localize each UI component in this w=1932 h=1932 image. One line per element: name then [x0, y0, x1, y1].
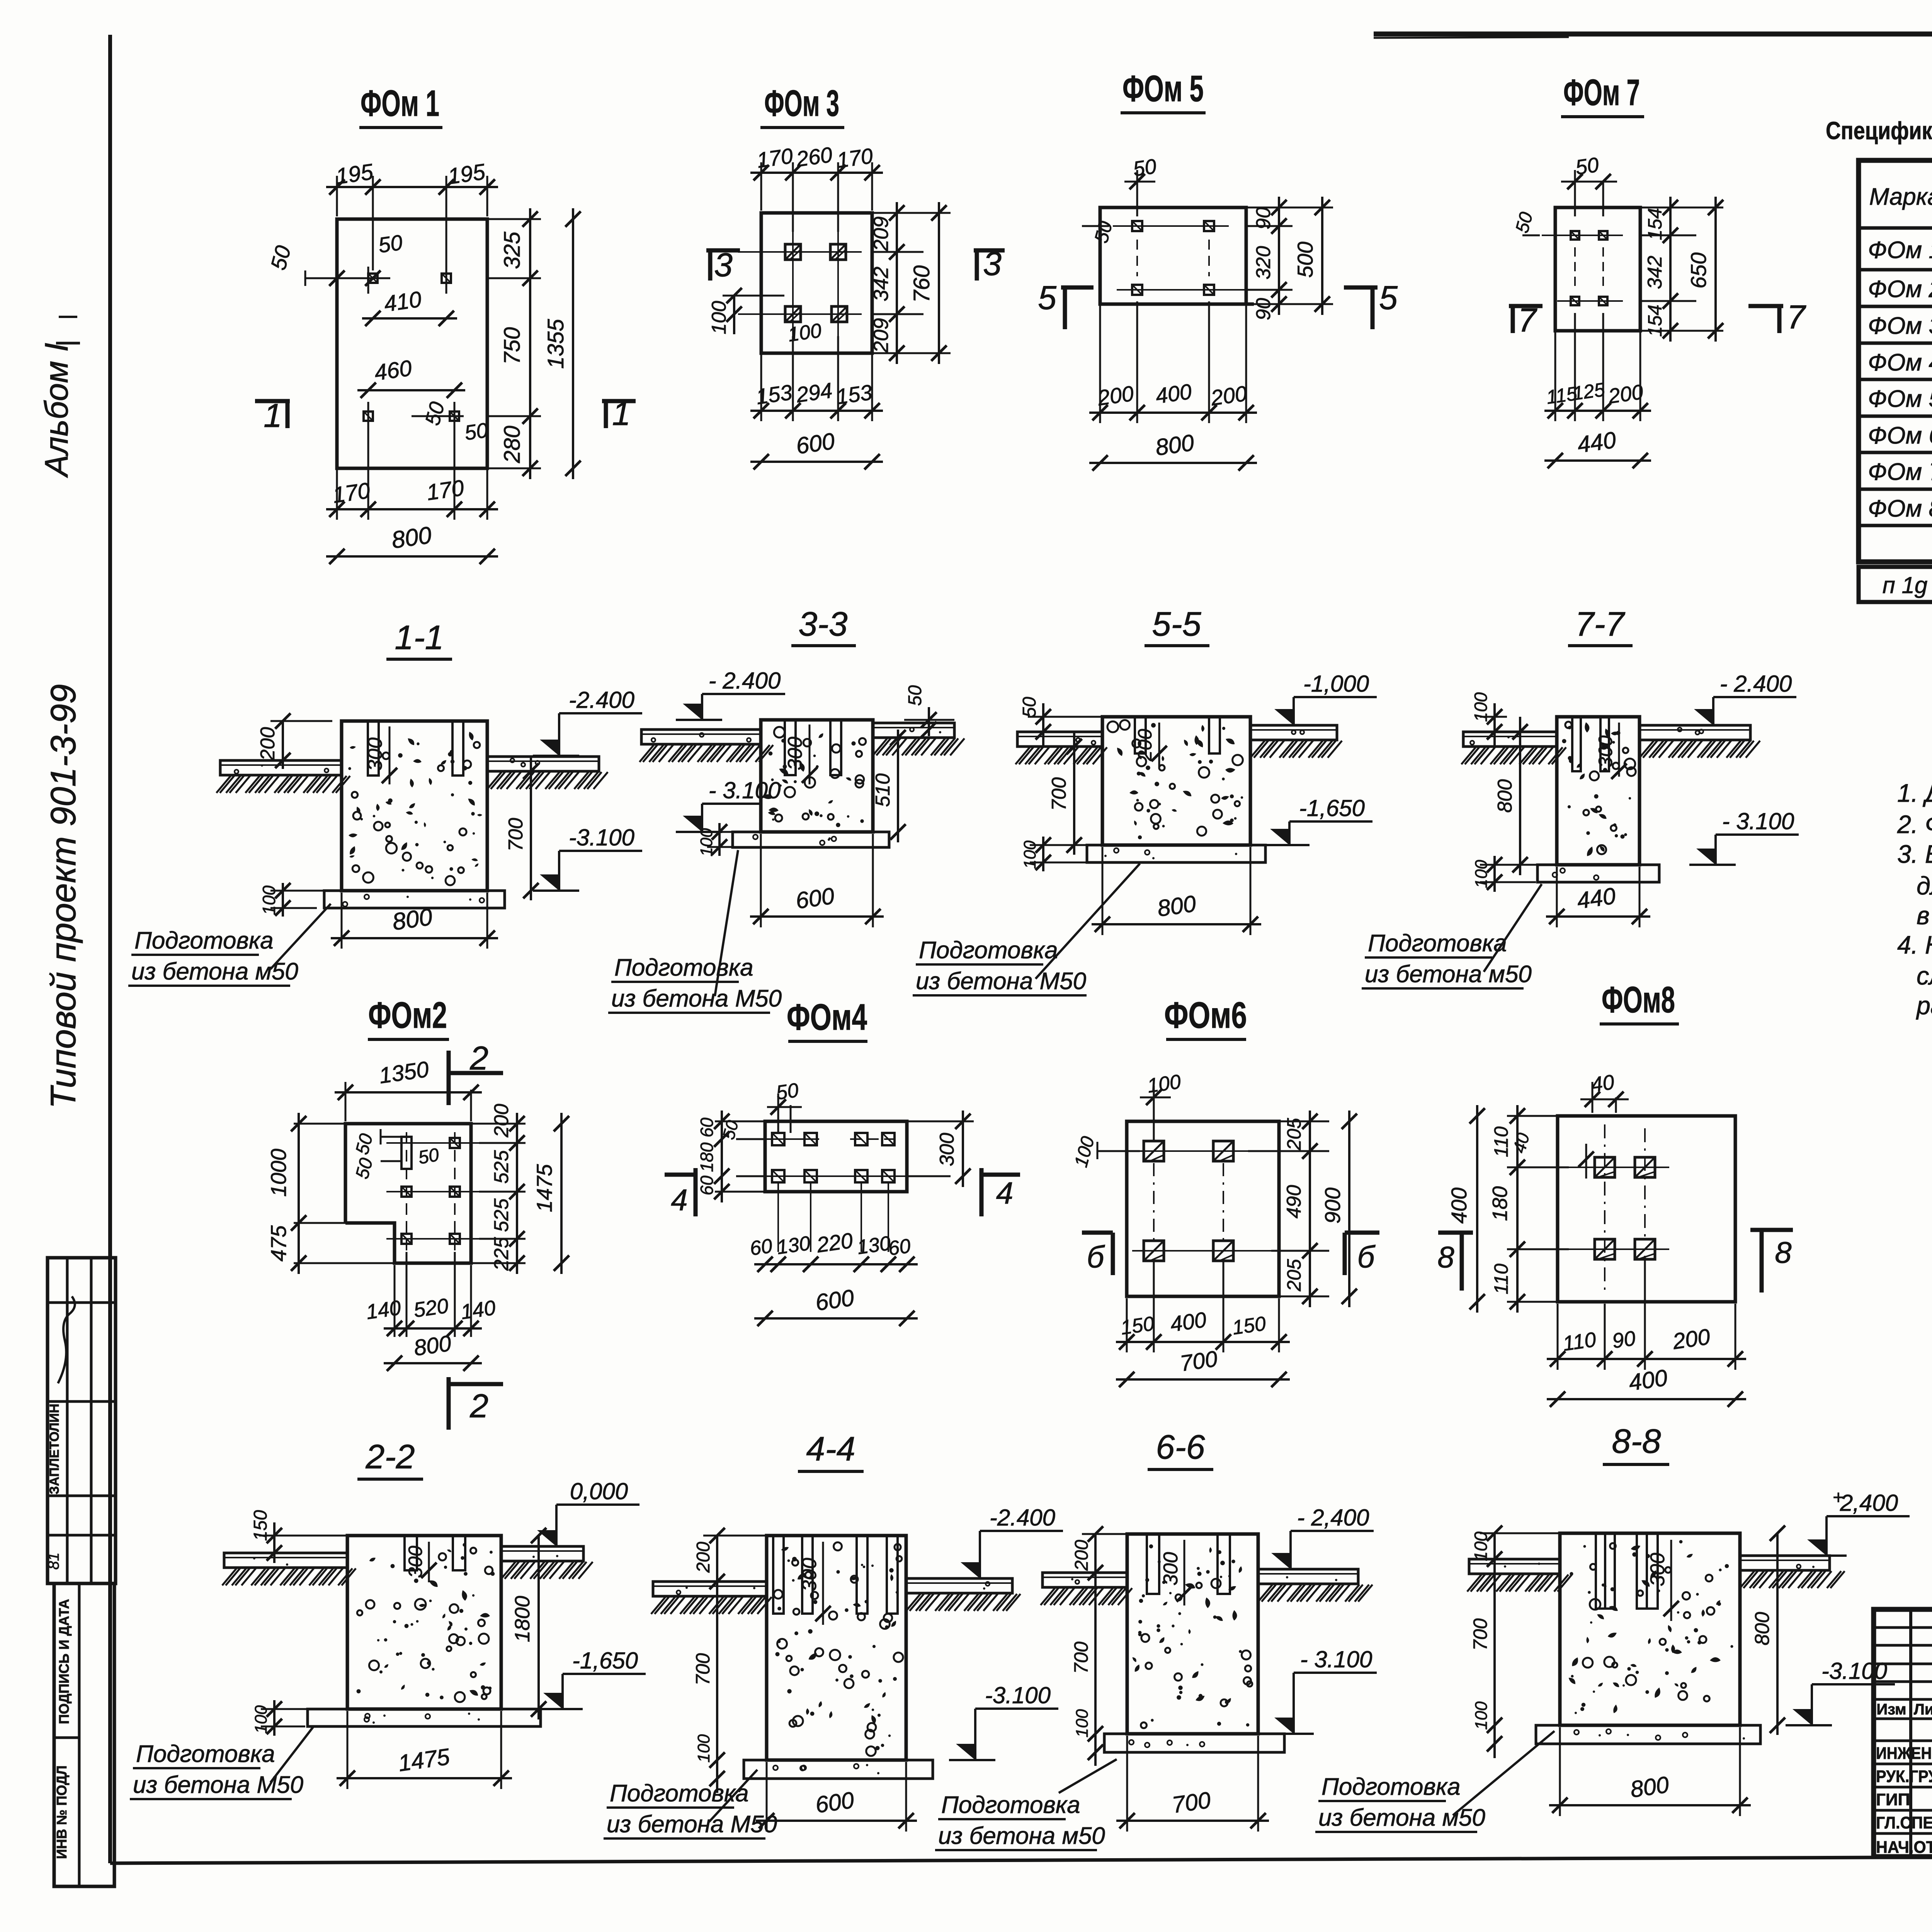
section 5-5 dim 50 left	[1042, 703, 1044, 746]
svg-text:4: 4	[996, 1176, 1014, 1210]
title block left thin rows	[1874, 1626, 1932, 1629]
svg-text:800: 800	[1154, 430, 1196, 461]
section 6-6 dim 100 base	[1094, 1743, 1097, 1766]
svg-text:700: 700	[1179, 1346, 1219, 1376]
svg-text:1800: 1800	[511, 1596, 534, 1642]
plan FOm6 bolt center lines	[1132, 1150, 1248, 1152]
svg-text:600: 600	[794, 883, 836, 914]
svg-text:700: 700	[692, 1653, 714, 1685]
svg-text:325: 325	[500, 231, 525, 269]
section 3-3 ground hatch right	[873, 738, 887, 755]
svg-text:280: 280	[500, 426, 525, 464]
plan FOm5 bottom dims 200 400 200	[1099, 304, 1101, 423]
svg-text:7-7: 7-7	[1575, 605, 1625, 643]
svg-text:РУК.ГРУП.: РУК.ГРУП.	[1876, 1767, 1932, 1786]
plan FOm4 section mark 4 right	[980, 1168, 984, 1216]
plan FOm4 bottom chain dims 60 130 220 130 60	[754, 1263, 918, 1265]
margin stamp upper box	[48, 1258, 116, 1583]
title block left columns verticals	[1909, 1609, 1912, 1857]
svg-text:200: 200	[1607, 380, 1645, 408]
section 2-2 anchor slot right	[453, 1536, 465, 1570]
plan FOm8 overall dim 400 left	[1476, 1105, 1478, 1313]
plan FOm6 overall dim 900	[1348, 1111, 1350, 1307]
svg-text:150: 150	[1231, 1312, 1267, 1339]
svg-text:-3.100: -3.100	[985, 1682, 1051, 1708]
svg-text:300: 300	[364, 738, 386, 771]
plan FOm8 bottom chain dims 110 90 200	[1557, 1304, 1559, 1370]
svg-text:7: 7	[1787, 299, 1806, 336]
section 3-3 foundation block	[761, 720, 873, 832]
section 4-4 bottom dim 600	[766, 1762, 768, 1832]
plan FOm5 section mark 5 left	[1061, 286, 1094, 290]
svg-text:294: 294	[794, 378, 834, 407]
svg-text:ГЛ.СПЕЦ.: ГЛ.СПЕЦ.	[1876, 1813, 1932, 1832]
section 1-1 elevation -3.100	[559, 850, 642, 852]
svg-text:п 1g: п 1g	[1883, 572, 1927, 598]
svg-text:растворенным в бензине.: растворенным в бензине.	[1916, 991, 1932, 1020]
svg-text:100: 100	[1472, 860, 1491, 888]
title block outer frame	[1874, 1609, 1932, 1857]
svg-text:900: 900	[1320, 1187, 1345, 1223]
section 5-5 dim 100 base	[1042, 837, 1044, 871]
svg-text:Подготовка: Подготовка	[1321, 1774, 1461, 1800]
svg-text:Подготовка: Подготовка	[614, 954, 753, 981]
section 3-3 anchor slot right	[830, 720, 841, 775]
section 4-4 floor slab left	[653, 1582, 767, 1596]
svg-text:100: 100	[1471, 1531, 1491, 1561]
svg-text:260: 260	[794, 142, 834, 172]
svg-text:520: 520	[412, 1294, 450, 1322]
svg-text:1475: 1475	[532, 1164, 556, 1212]
section 4-4 anchor slots	[773, 1536, 784, 1614]
section 2-2 foundation block	[347, 1536, 501, 1709]
section 5-5 elevation -1,650	[1289, 820, 1372, 823]
section 2-2 anchor slot left	[405, 1536, 417, 1570]
section 7-7 floor slab left	[1463, 732, 1557, 747]
section 3-3 dim 50 right	[928, 707, 930, 736]
plan FOm5 dim 50 top-left bolt	[1136, 170, 1138, 216]
section 6-6 ground hatch right	[1258, 1585, 1272, 1602]
svg-text:100: 100	[259, 885, 279, 915]
plan FOm7 bottom overall dim 440	[1544, 459, 1651, 462]
svg-text:ФОм 7: ФОм 7	[1563, 72, 1640, 113]
svg-text:8-8: 8-8	[1612, 1422, 1661, 1460]
section 3-3 anchor slot left	[785, 720, 796, 775]
section 7-7 dim 300 slots	[1618, 723, 1620, 777]
svg-text:300: 300	[1595, 735, 1616, 768]
svg-text:50: 50	[1019, 697, 1040, 718]
svg-text:ФОм 2: ФОм 2	[1868, 276, 1932, 303]
svg-text:-1,000: -1,000	[1303, 671, 1369, 697]
section 1-1 bottom dim 800	[341, 893, 343, 949]
svg-text:2. Фундаменты ФОм 1÷ФОм8 из: 2. Фундаменты ФОм 1÷ФОм8 из бетона марки…	[1897, 810, 1932, 838]
svg-text:- 2.400: - 2.400	[1720, 671, 1792, 697]
section 2-2 ground hatch right	[501, 1562, 515, 1579]
section 3-3 floor slab left	[641, 730, 761, 744]
svg-text:3: 3	[714, 247, 733, 284]
section 2-2 ground hatch left	[222, 1568, 236, 1585]
svg-text:50: 50	[775, 1079, 800, 1104]
svg-text:200: 200	[490, 1104, 513, 1138]
plan FOm1 right chain dims 325 750 280	[487, 218, 541, 220]
svg-text:800: 800	[390, 522, 433, 554]
svg-text:209: 209	[869, 216, 893, 252]
svg-text:180: 180	[697, 1142, 717, 1172]
section 2-2 dim 100 base	[273, 1700, 276, 1736]
svg-text:3: 3	[983, 245, 1002, 282]
plan FOm3 outline	[761, 213, 872, 353]
svg-text:из бетона м50: из бетона м50	[938, 1823, 1105, 1849]
section 5-5 ground hatch left	[1015, 747, 1030, 764]
section 7-7 dim 100 left top	[1493, 703, 1496, 746]
svg-text:600: 600	[814, 1285, 855, 1316]
svg-text:700: 700	[1070, 1641, 1092, 1674]
svg-text:Изм: Изм	[1876, 1701, 1906, 1718]
svg-text:140: 140	[459, 1296, 497, 1324]
plan FOm7 bottom dims 115 125 200	[1554, 331, 1556, 421]
plan FOm8 outline	[1558, 1116, 1735, 1302]
svg-text:- 2,400: - 2,400	[1297, 1505, 1369, 1531]
svg-text:342: 342	[1644, 256, 1666, 289]
section 7-7 ground hatch left	[1461, 747, 1476, 764]
plan FOm8 dim 40 small left	[1585, 1144, 1587, 1179]
svg-text:90: 90	[1611, 1327, 1637, 1353]
svg-text:300: 300	[1646, 1553, 1669, 1587]
plan FOm2 section mark 2 bottom	[447, 1377, 451, 1430]
section 2-2 elevation -1,650	[563, 1673, 646, 1675]
section 4-4 dim 300 slots	[822, 1542, 824, 1625]
plan FOm2 section mark 2 top	[447, 1051, 451, 1105]
section 8-8 foundation block	[1560, 1533, 1740, 1725]
svg-text:из бетона м50: из бетона м50	[131, 958, 298, 985]
svg-text:700: 700	[1048, 777, 1070, 811]
svg-text:из бетона М50: из бетона М50	[133, 1772, 303, 1798]
svg-text:300: 300	[936, 1133, 958, 1167]
svg-text:1. Данный лист см. совместно: 1. Данный лист см. совместно с листом КЖ…	[1897, 779, 1932, 807]
plan FOm2 bottom overall dim 800	[384, 1362, 482, 1364]
svg-text:НАЧ.ОТД.: НАЧ.ОТД.	[1876, 1838, 1932, 1857]
svg-text:100: 100	[1073, 1709, 1092, 1738]
section 7-7 anchor slot right	[1600, 717, 1609, 771]
plan FOm8 bolt center lines	[1569, 1167, 1669, 1168]
svg-text:3. В графе „ примечание" дан: 3. В графе „ примечание" дан объём бетон…	[1897, 840, 1932, 868]
svg-text:320: 320	[1252, 246, 1275, 280]
svg-text:ЗАПЛЕТОЛИН: ЗАПЛЕТОЛИН	[47, 1404, 62, 1495]
svg-text:Подготовка: Подготовка	[134, 927, 274, 954]
svg-text:100: 100	[1146, 1070, 1182, 1097]
plan FOm1 bottom dims 170 170	[336, 468, 338, 520]
plan FOm6 dim 100 top	[1153, 1086, 1155, 1140]
svg-text:410: 410	[383, 287, 423, 317]
plan FOm7 outline	[1555, 207, 1640, 331]
svg-text:440: 440	[1576, 427, 1617, 458]
plan FOm8 left chain dims 110 180 110	[1507, 1115, 1558, 1117]
svg-text:ФОм 6: ФОм 6	[1868, 422, 1932, 449]
section 7-7 dim 100 base	[1493, 856, 1496, 892]
plan FOm6 anchor bolts	[1144, 1141, 1164, 1161]
plan FOm3 left dim 100	[733, 296, 735, 334]
plan FOm3 bottom overall dim 600	[750, 461, 883, 463]
plan FOm3 section mark 3 right	[974, 248, 1005, 253]
section 6-6 floor slab left	[1043, 1573, 1127, 1587]
svg-text:209: 209	[869, 318, 893, 353]
section 3-3 dim 100 base	[718, 823, 721, 856]
svg-text:100: 100	[1471, 692, 1491, 722]
section 1-1 dim 100 base left	[282, 883, 284, 917]
svg-text:2,400: 2,400	[1840, 1490, 1898, 1516]
plan FOm6 bottom overall dim 700	[1116, 1378, 1290, 1381]
svg-text:7: 7	[1518, 302, 1537, 339]
section 2-2 base slab	[308, 1709, 541, 1726]
section 8-8 ground hatch left	[1467, 1575, 1481, 1592]
section 5-5 base slab	[1087, 845, 1265, 862]
svg-text:153: 153	[835, 380, 874, 409]
section 6-6 elevation -3.100	[1294, 1672, 1377, 1674]
plan FOm5 anchor bolts	[1132, 221, 1142, 231]
svg-text:150: 150	[250, 1510, 271, 1541]
section 5-5 dim 200 slots	[1158, 723, 1160, 767]
plan FOm8 section mark 8 left	[1460, 1233, 1464, 1291]
svg-text:-3.100: -3.100	[1821, 1658, 1887, 1684]
svg-text:ФОм2: ФОм2	[368, 995, 447, 1036]
section 5-5 bottom dim 800	[1102, 847, 1104, 935]
section 8-8 elevation -3.100	[1812, 1683, 1895, 1685]
section 3-3 base slab	[733, 832, 889, 847]
svg-text:400: 400	[1154, 379, 1193, 408]
plan FOm4 right dim 300	[907, 1121, 974, 1122]
svg-text:475: 475	[266, 1225, 291, 1261]
section 5-5 floor slab left	[1017, 732, 1102, 747]
section 1-1 dim 200 left	[282, 721, 284, 769]
svg-text:200: 200	[1096, 381, 1135, 410]
section 6-6 dim 700 left	[1094, 1582, 1097, 1743]
plan FOm2 right chain dims 200 525 525 225	[471, 1123, 526, 1125]
section 3-3 dim 510 right	[897, 730, 899, 842]
svg-text:50: 50	[905, 685, 925, 706]
svg-text:- 2.400: - 2.400	[709, 668, 781, 694]
svg-text:для монолитных фундаментов: для монолитных фундаментов и масса элеме…	[1917, 871, 1932, 900]
section 3-3 dim 300 slots	[809, 724, 811, 784]
svg-text:Альбом I: Альбом I	[38, 343, 75, 478]
plan FOm6 bottom chain dims 150 400 150	[1126, 1298, 1128, 1352]
section 5-5 dim 700 left	[1073, 732, 1075, 855]
svg-text:2: 2	[469, 1388, 488, 1425]
section 3-3 elevation -2.400	[702, 693, 785, 695]
section 8-8 floor slab left	[1469, 1559, 1560, 1574]
svg-text:600: 600	[814, 1787, 855, 1818]
section 8-8 ground hatch right	[1740, 1571, 1754, 1588]
spec table outer frame	[1859, 160, 1932, 562]
svg-text:525: 525	[490, 1150, 513, 1184]
svg-text:Спецификация элементов к ма: Спецификация элементов к маркировочной с…	[1826, 117, 1932, 145]
svg-text:100: 100	[1472, 1701, 1491, 1730]
section 8-8 dim 700 left	[1493, 1569, 1496, 1735]
plan FOm4 section mark 4 left	[694, 1168, 698, 1216]
section 1-1 base slab	[324, 891, 505, 908]
section 1-1 floor slab right	[487, 757, 599, 771]
plan FOm4 outline	[765, 1121, 907, 1192]
section 6-6 anchor slot right	[1218, 1534, 1230, 1594]
svg-text:5: 5	[1038, 279, 1057, 316]
svg-text:2: 2	[469, 1040, 488, 1077]
section 8-8 dim 100 left	[1493, 1533, 1496, 1569]
plan FOm2 anchor slot bolt top-left	[401, 1137, 412, 1169]
section 6-6 dim 300 slots	[1184, 1540, 1185, 1605]
section 8-8 elevation +2,400	[1827, 1515, 1910, 1517]
svg-text:400: 400	[1447, 1187, 1471, 1223]
section 5-5 ground hatch right	[1250, 741, 1265, 758]
section 7-7 bottom dim 440	[1556, 867, 1558, 927]
svg-text:700: 700	[1469, 1618, 1491, 1651]
section 1-1 ground hatch right	[487, 772, 502, 789]
plan FOm7 dim 50 left	[1522, 235, 1540, 236]
svg-text:200: 200	[257, 727, 279, 761]
section 4-4 base slab	[744, 1760, 933, 1779]
svg-text:ФОм 5: ФОм 5	[1868, 386, 1932, 412]
svg-text:195: 195	[334, 159, 375, 189]
svg-text:б: б	[1357, 1240, 1376, 1274]
section 2-2 dim 300 slots	[428, 1542, 430, 1582]
svg-text:ФОм 1: ФОм 1	[1868, 237, 1932, 264]
plan FOm4 dim 50 top	[777, 1094, 779, 1133]
svg-text:1000: 1000	[266, 1149, 291, 1197]
plan FOm7 anchor bolts	[1571, 231, 1579, 240]
svg-text:170: 170	[425, 475, 466, 505]
sheet frame bottom border line	[110, 1855, 1932, 1863]
svg-text:205: 205	[1283, 1259, 1305, 1292]
svg-text:300: 300	[1160, 1552, 1182, 1586]
plan FOm5 bottom overall dim 800	[1089, 462, 1257, 464]
svg-text:-3.100: -3.100	[569, 825, 634, 850]
section 4-4 dim 700 left	[716, 1592, 718, 1770]
svg-text:-1,650: -1,650	[572, 1648, 638, 1673]
svg-text:ФОм 7: ФОм 7	[1868, 459, 1932, 485]
section 3-3 elevation -3.100	[702, 803, 760, 805]
svg-text:130: 130	[776, 1232, 812, 1259]
svg-text:0,000: 0,000	[570, 1478, 628, 1504]
svg-text:Подготовка: Подготовка	[1368, 930, 1507, 957]
title block name rows horizontals	[1874, 1740, 1932, 1742]
svg-text:300: 300	[784, 737, 806, 770]
plan FOm4 anchor bolts	[772, 1133, 784, 1145]
section 4-4 dim 100 base	[716, 1770, 718, 1793]
section 8-8 base slab	[1536, 1725, 1760, 1744]
svg-text:- 3.100: - 3.100	[709, 777, 781, 803]
svg-text:Марка: Марка	[1869, 184, 1932, 210]
svg-text:1: 1	[264, 397, 282, 434]
svg-text:ФОм 3: ФОм 3	[764, 83, 839, 124]
svg-text:Лист: Лист	[1914, 1701, 1932, 1718]
svg-text:650: 650	[1686, 252, 1711, 288]
section 8-8 bottom dim 800	[1559, 1727, 1561, 1816]
svg-text:4-4: 4-4	[806, 1430, 855, 1468]
section 7-7 dim 800 left	[1519, 717, 1521, 875]
section 1-1 elevation -2.400	[559, 712, 642, 714]
section 4-4 dim 200 left	[716, 1536, 718, 1592]
sheet frame top border line	[1374, 32, 1932, 37]
plan FOm5 section mark 5 right	[1344, 286, 1378, 290]
svg-text:110: 110	[1490, 1264, 1512, 1294]
plan FOm3 overall dim 760	[938, 202, 940, 364]
spec table row lines	[1859, 226, 1932, 230]
plan FOm1 overall height dim 1355	[572, 208, 574, 479]
section 4-4 foundation block	[767, 1536, 906, 1760]
svg-text:1355: 1355	[543, 319, 568, 369]
section 6-6 foundation block	[1127, 1534, 1258, 1734]
svg-text:8: 8	[1775, 1235, 1791, 1269]
plan FOm3 right chain dims 209 342 209	[872, 212, 951, 214]
svg-text:60: 60	[697, 1117, 717, 1138]
svg-text:490: 490	[1283, 1185, 1305, 1219]
section 8-8 dim 800 right	[1776, 1533, 1779, 1735]
svg-text:300: 300	[405, 1546, 426, 1578]
section 2-2 bottom dim 1475	[347, 1711, 349, 1789]
svg-text:50: 50	[1574, 153, 1600, 179]
svg-text:800: 800	[1629, 1772, 1670, 1803]
plan FOm1 section mark 1 right	[602, 399, 636, 403]
plan FOm4 bolt center lines	[750, 1138, 819, 1140]
plan FOm2 anchor bolts	[401, 1187, 412, 1197]
svg-text:200: 200	[1071, 1540, 1092, 1571]
section 6-6 floor slab right	[1258, 1569, 1358, 1584]
svg-text:205: 205	[1283, 1118, 1305, 1151]
svg-text:из бетона М50: из бетона М50	[607, 1811, 777, 1838]
svg-text:460: 460	[373, 355, 413, 386]
svg-text:700: 700	[1170, 1787, 1212, 1818]
margin stamp signature scribble	[58, 1296, 75, 1383]
svg-text:ИНЖЕНЕР: ИНЖЕНЕР	[1876, 1744, 1932, 1763]
svg-text:750: 750	[500, 327, 525, 365]
svg-text:800: 800	[412, 1331, 453, 1361]
section 2-2 elevation 0,000	[556, 1503, 639, 1506]
section 1-1 floor slab left	[220, 760, 342, 775]
section 4-4 elevation -2.400	[980, 1530, 1063, 1532]
plan FOm2 outline L-shape	[345, 1124, 471, 1263]
svg-text:из бетона М50: из бетона М50	[611, 985, 782, 1012]
plan FOm7 overall dim 650	[1714, 197, 1717, 342]
section 7-7 foundation block	[1557, 717, 1639, 865]
plan FOm6 dim 100 left	[1097, 1150, 1109, 1152]
sheet frame left border line	[108, 35, 112, 1863]
svg-text:ГИП: ГИП	[1876, 1790, 1910, 1809]
svg-text:Подготовка: Подготовка	[941, 1792, 1080, 1818]
svg-text:90: 90	[1252, 298, 1275, 320]
svg-text:400: 400	[1169, 1307, 1208, 1336]
plan FOm1 bolt leader lines	[305, 277, 390, 279]
svg-text:342: 342	[869, 267, 893, 301]
svg-text:500: 500	[1293, 241, 1317, 277]
svg-text:6-6: 6-6	[1156, 1428, 1205, 1466]
section 8-8 anchor slot left	[1596, 1533, 1615, 1609]
svg-text:3-3: 3-3	[798, 605, 847, 643]
svg-text:из бетона М50: из бетона М50	[916, 968, 1086, 995]
plan FOm8 dim 40 top	[1592, 1082, 1594, 1113]
svg-text:200: 200	[1671, 1324, 1712, 1354]
svg-text:8: 8	[1437, 1240, 1454, 1274]
svg-text:90: 90	[1252, 207, 1275, 230]
section 7-7 floor slab right	[1639, 725, 1750, 740]
section 6-6 dim 200 left	[1094, 1534, 1097, 1582]
svg-text:110: 110	[1561, 1328, 1598, 1355]
section 6-6 elevation -2,400	[1291, 1530, 1374, 1532]
section 3-3 bottom dim 600	[760, 834, 762, 927]
svg-text:ПОДПИСЬ И ДАТА: ПОДПИСЬ И ДАТА	[56, 1599, 72, 1724]
svg-text:2-2: 2-2	[365, 1437, 415, 1476]
plan FOm2 bolt center lines	[386, 1142, 479, 1144]
svg-text:60: 60	[748, 1235, 774, 1260]
svg-text:ФОм8: ФОм8	[1602, 979, 1675, 1020]
section 4-4 elevation -3.100	[975, 1708, 1058, 1710]
